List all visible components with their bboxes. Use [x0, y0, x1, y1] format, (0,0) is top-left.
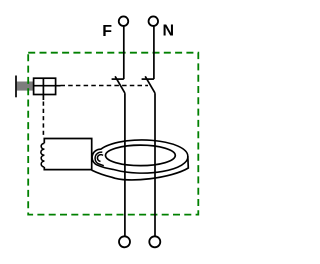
third winding turn	[97, 155, 103, 162]
trip coil box	[44, 139, 91, 170]
contact fixed tick N	[142, 78, 154, 80]
trip coil bumps	[41, 143, 44, 167]
mechanical link dashed vertical to trip coil	[42, 102, 44, 138]
wire N lower	[154, 93, 156, 236]
breaker blade F	[115, 76, 125, 93]
enclosure dashed box	[28, 53, 198, 215]
wire F lower	[124, 93, 126, 236]
test button body (gray)	[17, 82, 34, 91]
test button plunger cap	[15, 76, 17, 98]
toroid rim bottom thickness edge	[92, 156, 189, 180]
terminal F bottom	[119, 236, 130, 247]
wire F (phase) through CT	[123, 26, 125, 79]
test contact block	[34, 78, 61, 100]
toroid CT core outer rim with winding loop	[92, 140, 188, 173]
terminal F top	[119, 16, 129, 26]
mechanical link dashed horizontal	[61, 85, 149, 87]
svg-text:F: F	[102, 23, 112, 40]
second winding turn	[95, 152, 104, 166]
terminal N top	[149, 16, 159, 26]
toroid inner hole ellipse	[105, 145, 175, 166]
contact fixed tick F	[112, 78, 124, 80]
wire N (neutral) through CT	[153, 26, 155, 79]
svg-text:N: N	[163, 23, 175, 40]
terminal N bottom	[149, 236, 160, 247]
breaker blade N	[145, 76, 155, 93]
